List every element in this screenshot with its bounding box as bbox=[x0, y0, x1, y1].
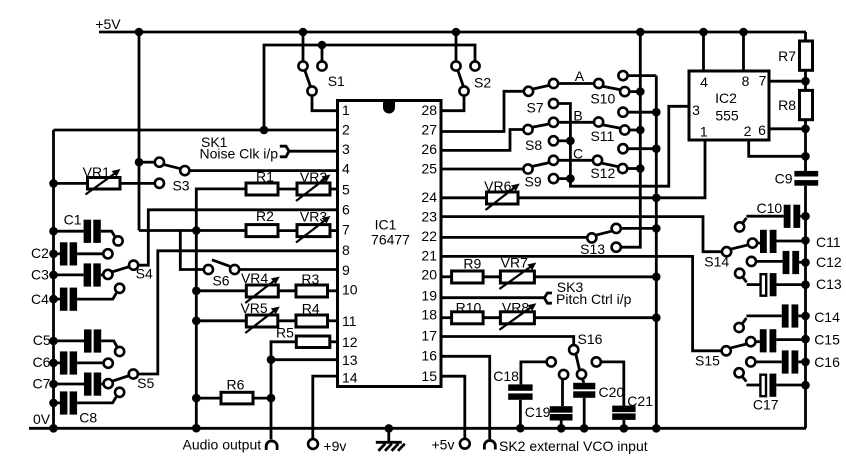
wire S8 lower contact stub bbox=[558, 139, 570, 142]
svg-text:VR4: VR4 bbox=[241, 270, 268, 286]
svg-text:3: 3 bbox=[342, 141, 350, 157]
svg-text:4: 4 bbox=[700, 74, 708, 90]
wire IC2 pin8 stub bbox=[739, 28, 748, 71]
switch S13 bbox=[580, 224, 660, 257]
wire S9 lower contact stub bbox=[558, 177, 570, 180]
svg-text:25: 25 bbox=[421, 161, 437, 177]
svg-text:R5: R5 bbox=[276, 325, 294, 341]
svg-text:S14: S14 bbox=[704, 254, 729, 270]
wire select line x640 bbox=[621, 28, 645, 248]
wire IC1 pin11 row left bbox=[192, 317, 246, 326]
svg-text:S9: S9 bbox=[525, 173, 542, 189]
resistor R7 bbox=[778, 32, 812, 70]
capacitor C18 bbox=[493, 362, 546, 433]
wire R1 to VR2 bbox=[278, 188, 297, 191]
capacitor C3 bbox=[31, 263, 112, 286]
svg-text:C1: C1 bbox=[64, 212, 82, 228]
resistor R2 bbox=[246, 208, 278, 237]
svg-text:555: 555 bbox=[715, 108, 739, 124]
wire ground line x656 bbox=[652, 76, 661, 433]
svg-text:R9: R9 bbox=[463, 256, 481, 272]
wire IC1 pin20 row bbox=[441, 275, 452, 278]
capacitor C11 bbox=[748, 230, 841, 253]
svg-text:S4: S4 bbox=[136, 266, 153, 282]
capacitor C16 bbox=[746, 350, 840, 373]
svg-text:C15: C15 bbox=[814, 332, 840, 348]
connector +5v bbox=[432, 437, 470, 453]
svg-text:27: 27 bbox=[421, 122, 437, 138]
capacitor C14 bbox=[735, 304, 841, 332]
svg-text:R7: R7 bbox=[778, 48, 796, 64]
svg-text:76477: 76477 bbox=[371, 232, 410, 248]
svg-text:5: 5 bbox=[342, 182, 350, 198]
wire IC1 pin17 to S16 bbox=[441, 337, 574, 346]
wire IC1 pin14 to +9v bbox=[313, 376, 338, 439]
IC2 555 bbox=[689, 71, 769, 140]
svg-text:+9v: +9v bbox=[323, 438, 346, 454]
connector audio output bbox=[183, 437, 278, 453]
svg-text:C8: C8 bbox=[79, 409, 97, 425]
svg-text:22: 22 bbox=[421, 228, 437, 244]
svg-text:26: 26 bbox=[421, 141, 437, 157]
svg-text:S10: S10 bbox=[590, 91, 615, 107]
wire IC1 pin8 to S5 bbox=[138, 251, 338, 374]
svg-text:C10: C10 bbox=[757, 200, 783, 216]
switch S12 bbox=[590, 144, 660, 181]
wire IC1 pin6 to S4 bbox=[138, 210, 337, 265]
capacitor C7 bbox=[33, 373, 113, 396]
resistor R9 bbox=[452, 256, 484, 283]
svg-text:14: 14 bbox=[342, 370, 358, 386]
wire R5 to IC1 pin12 bbox=[330, 340, 338, 343]
svg-text:4: 4 bbox=[342, 161, 350, 177]
svg-text:10: 10 bbox=[342, 282, 358, 298]
svg-text:1: 1 bbox=[700, 124, 708, 140]
wire IC1 pin13 bbox=[267, 355, 338, 364]
switch S6 bbox=[204, 260, 239, 289]
svg-text:9: 9 bbox=[342, 262, 350, 278]
potentiometer VR3 bbox=[296, 208, 331, 242]
resistor R10 bbox=[452, 300, 484, 324]
wire R9 to VR7 bbox=[483, 275, 500, 278]
svg-text:S1: S1 bbox=[328, 73, 345, 89]
capacitor C12 bbox=[747, 251, 842, 274]
svg-text:7: 7 bbox=[759, 73, 767, 89]
svg-text:S7: S7 bbox=[527, 100, 544, 116]
wire S6 to IC1 pin9 bbox=[239, 268, 337, 271]
wire IC1 pin26 to S8 bbox=[441, 130, 523, 151]
svg-text:S15: S15 bbox=[695, 353, 720, 369]
svg-text:S2: S2 bbox=[474, 75, 491, 91]
wire VR4 to R3 bbox=[278, 289, 296, 292]
wire +5V rail bbox=[99, 31, 806, 34]
potentiometer VR6 bbox=[484, 178, 520, 210]
svg-text:11: 11 bbox=[342, 313, 357, 329]
node A / wire to S10 bbox=[558, 68, 594, 84]
svg-text:21: 21 bbox=[421, 247, 437, 263]
svg-text:Audio output: Audio output bbox=[183, 437, 262, 453]
capacitor C15 bbox=[746, 329, 840, 352]
resistor R8 bbox=[778, 70, 812, 171]
resistor R3 bbox=[296, 271, 328, 297]
svg-text:C17: C17 bbox=[753, 396, 779, 412]
wire middle vertical bus x196 bbox=[192, 231, 201, 433]
svg-text:6: 6 bbox=[758, 122, 766, 138]
svg-text:8: 8 bbox=[342, 242, 350, 258]
capacitor C17 bbox=[735, 368, 810, 412]
resistor R5 bbox=[276, 325, 330, 348]
wire S7 lower contact to 555 pin3 net bbox=[558, 104, 689, 187]
svg-text:Pitch Ctrl i/p: Pitch Ctrl i/p bbox=[556, 291, 632, 307]
switch S11 bbox=[590, 108, 660, 145]
svg-text:C6: C6 bbox=[33, 354, 51, 370]
switch S3 bbox=[135, 158, 190, 194]
wire IC1 pin5 row bbox=[196, 189, 246, 231]
wire 555 pin2 junction bbox=[749, 140, 810, 161]
capacitor C20 bbox=[573, 379, 624, 433]
svg-text:Noise Clk i/p: Noise Clk i/p bbox=[200, 146, 279, 162]
wire S2 to IC1 pin28 bbox=[441, 96, 464, 111]
capacitor C19 bbox=[525, 379, 573, 433]
svg-text:C11: C11 bbox=[816, 234, 841, 250]
capacitor C4 bbox=[31, 284, 124, 311]
svg-text:SK2 external VCO input: SK2 external VCO input bbox=[499, 438, 648, 454]
svg-text:6: 6 bbox=[342, 202, 350, 218]
svg-text:7: 7 bbox=[342, 222, 350, 238]
wire 555 pin6 junction bbox=[769, 125, 810, 134]
wire left vertical bus bbox=[49, 130, 58, 433]
wire VR8 to ground line bbox=[534, 313, 660, 322]
svg-text:1: 1 bbox=[342, 102, 350, 118]
svg-text:0V: 0V bbox=[33, 411, 51, 427]
wire IC1 pin19 to SK3 bbox=[441, 296, 544, 299]
svg-text:18: 18 bbox=[421, 307, 437, 323]
wire IC1 pin15 to +5v bbox=[441, 376, 465, 439]
svg-text:C4: C4 bbox=[31, 291, 49, 307]
wire IC1 pin23 to S14 bbox=[441, 217, 722, 252]
wire VR7 to ground line bbox=[534, 273, 660, 282]
svg-text:C3: C3 bbox=[31, 266, 49, 282]
wire VR3 to IC1 pin7 bbox=[330, 229, 338, 232]
svg-text:2: 2 bbox=[342, 122, 350, 138]
switch S10 bbox=[590, 71, 656, 107]
svg-text:C9: C9 bbox=[775, 171, 793, 187]
ground bbox=[376, 424, 405, 451]
svg-text:S16: S16 bbox=[578, 331, 603, 347]
svg-text:3: 3 bbox=[692, 102, 700, 118]
IC1 76477 bbox=[338, 101, 442, 387]
svg-text:A: A bbox=[575, 68, 585, 84]
svg-text:C13: C13 bbox=[816, 276, 842, 292]
switch S5 bbox=[112, 369, 155, 391]
capacitor C8 bbox=[49, 388, 124, 426]
svg-text:S13: S13 bbox=[580, 241, 605, 257]
wire R5 left to pin13 node bbox=[271, 342, 296, 360]
svg-text:C7: C7 bbox=[33, 375, 51, 391]
svg-text:28: 28 bbox=[421, 102, 437, 118]
svg-text:S12: S12 bbox=[590, 165, 615, 181]
wire audio output drop bbox=[267, 360, 276, 440]
wire SK1 to IC1 pin3 bbox=[289, 150, 338, 153]
svg-text:C12: C12 bbox=[816, 254, 842, 270]
svg-text:23: 23 bbox=[421, 209, 437, 225]
svg-text:IC2: IC2 bbox=[715, 90, 737, 106]
capacitor C1 bbox=[49, 212, 123, 246]
capacitor C10 bbox=[735, 200, 810, 231]
svg-text:20: 20 bbox=[421, 267, 437, 283]
resistor R4 bbox=[296, 300, 328, 327]
svg-text:15: 15 bbox=[421, 368, 437, 384]
svg-text:8: 8 bbox=[742, 73, 750, 89]
node C / wire to S12 bbox=[558, 146, 593, 162]
wire S3 to IC1 pin4 bbox=[189, 169, 337, 172]
wire VR6 to 555 pin1 bbox=[518, 140, 705, 202]
wire IC1 pin2 to left bus bbox=[54, 126, 338, 135]
wire R10 to VR8 bbox=[483, 316, 500, 319]
svg-text:R8: R8 bbox=[778, 97, 796, 113]
connector SK3 bbox=[544, 279, 631, 307]
switch S7 bbox=[524, 79, 558, 116]
wire IC1 pin27 to S7 bbox=[441, 91, 524, 131]
resistor R1 bbox=[246, 169, 278, 196]
connector +9v bbox=[308, 438, 346, 454]
svg-text:C19: C19 bbox=[525, 404, 551, 420]
wire +5V drop to S3/pin7 bbox=[135, 28, 144, 231]
switch S1 bbox=[298, 28, 345, 96]
svg-text:C2: C2 bbox=[31, 245, 49, 261]
wire IC1 pin7 +5V row bbox=[139, 226, 246, 235]
switch S4 bbox=[112, 261, 153, 282]
capacitor C13 bbox=[735, 269, 842, 297]
svg-text:S8: S8 bbox=[525, 137, 542, 153]
resistor R6 bbox=[192, 377, 271, 404]
svg-text:IC1: IC1 bbox=[375, 217, 397, 233]
switch S8 bbox=[523, 118, 558, 153]
wire IC1 pin10 row left bbox=[192, 287, 246, 296]
svg-text:C18: C18 bbox=[493, 368, 519, 384]
svg-text:S5: S5 bbox=[137, 375, 154, 391]
svg-text:S11: S11 bbox=[590, 128, 614, 144]
svg-text:12: 12 bbox=[342, 334, 358, 350]
svg-text:+5v: +5v bbox=[432, 437, 455, 453]
wire R2 to VR3 bbox=[278, 229, 297, 232]
node B / wire to S11 bbox=[558, 108, 594, 124]
wire IC1 pin21 to S15 bbox=[441, 256, 722, 350]
svg-text:S6: S6 bbox=[212, 272, 229, 288]
svg-text:+5V: +5V bbox=[95, 16, 121, 32]
potentiometer VR8 bbox=[499, 300, 536, 330]
svg-text:C20: C20 bbox=[599, 384, 625, 400]
wire S1 to IC1 pin1 bbox=[312, 96, 338, 111]
wire IC1 pin18 row bbox=[441, 316, 452, 319]
svg-text:19: 19 bbox=[421, 287, 437, 303]
0V rail bbox=[29, 411, 806, 428]
switch S2 bbox=[451, 28, 491, 96]
wire IC1 pin22 to S13 bbox=[441, 236, 587, 239]
svg-text:17: 17 bbox=[421, 327, 437, 343]
potentiometer VR2 bbox=[296, 169, 331, 201]
svg-text:S3: S3 bbox=[172, 178, 189, 194]
wire IC1 pin24 row bbox=[441, 196, 487, 199]
capacitor C9 bbox=[775, 171, 819, 429]
wire VR2 to IC1 pin5 bbox=[330, 188, 338, 191]
svg-text:16: 16 bbox=[421, 347, 437, 363]
potentiometer VR1 bbox=[49, 164, 155, 195]
capacitor C21 bbox=[601, 362, 653, 433]
wire IC1 pin25 to S9 bbox=[441, 168, 523, 171]
wire R3 to IC1 pin10 bbox=[328, 289, 338, 292]
capacitor C2 bbox=[31, 242, 112, 265]
switch S9 bbox=[523, 156, 558, 190]
wire 555 pin7 to divider bbox=[769, 77, 810, 86]
svg-text:R6: R6 bbox=[227, 377, 245, 393]
svg-text:VR7: VR7 bbox=[501, 255, 528, 271]
wire VR5 to R4 bbox=[278, 319, 296, 322]
svg-text:24: 24 bbox=[421, 189, 437, 205]
switch S14 bbox=[704, 245, 748, 270]
wire IC2 pin4 stub bbox=[699, 28, 708, 71]
wire secondary top rail bbox=[264, 41, 475, 130]
svg-text:13: 13 bbox=[342, 352, 358, 368]
potentiometer VR5 bbox=[240, 300, 279, 333]
potentiometer VR4 bbox=[241, 270, 280, 303]
svg-text:2: 2 bbox=[744, 123, 752, 139]
svg-text:C5: C5 bbox=[33, 332, 51, 348]
svg-text:C16: C16 bbox=[814, 354, 840, 370]
wire IC1 pin16 to SK2 bbox=[441, 356, 490, 439]
svg-text:C14: C14 bbox=[814, 309, 840, 325]
potentiometer VR7 bbox=[499, 255, 536, 289]
switch S15 bbox=[695, 344, 747, 369]
connector SK2 bbox=[484, 438, 647, 454]
wire R4 to IC1 pin11 bbox=[328, 319, 338, 322]
switch S16 bbox=[547, 331, 603, 379]
connector SK1 bbox=[200, 134, 290, 162]
capacitor C5 bbox=[33, 329, 124, 356]
node +5V label bbox=[95, 16, 121, 32]
capacitor C6 bbox=[33, 351, 113, 374]
wire +5V branch to S6 bbox=[180, 231, 204, 270]
